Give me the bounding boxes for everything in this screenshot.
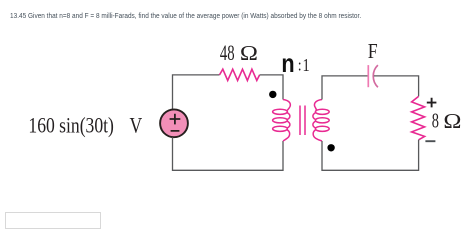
transformer core lines [300, 106, 305, 136]
problem statement text [10, 11, 361, 20]
svg-text:160 sin(30t): 160 sin(30t) [28, 114, 113, 138]
wire: from resistor to transformer primary top corner [260, 75, 283, 100]
svg-text:V: V [130, 114, 143, 138]
resistor R1 48ohm zigzag [220, 69, 260, 80]
svg-text:Ω: Ω [443, 109, 461, 132]
capacitor C1 curved plate [373, 65, 378, 87]
svg-text:n: n [281, 50, 294, 78]
source polarity marks plus minus [170, 114, 181, 131]
wire: secondary top to capacitor [322, 76, 368, 100]
wire: capacitor to right top corner down to resistor [374, 76, 419, 97]
svg-text:48: 48 [220, 41, 235, 66]
wire: resistor bottom to bottom rail to secondary bottom [322, 140, 419, 171]
svg-text:F: F [368, 41, 378, 64]
svg-text:1: 1 [303, 57, 310, 76]
capacitor C1 left plate [367, 65, 369, 87]
svg-text::: : [298, 56, 302, 75]
svg-text:Ω: Ω [240, 41, 258, 64]
label minus for 8ohm [425, 140, 435, 142]
resistor R2 8ohm vertical zigzag [412, 96, 425, 139]
svg-text:8: 8 [432, 109, 439, 132]
wire: top-left horizontal from source top corner to 48ohm resistor [173, 75, 220, 109]
polarity dot secondary [327, 144, 334, 151]
wire: source bottom to bottom rail, bottom rail to transformer primary bottom [173, 137, 284, 170]
transformer T1 secondary coil [313, 100, 329, 142]
transformer T1 primary coil [273, 100, 291, 142]
voltage source V1 160sin(30t) [160, 109, 188, 137]
label + for 8ohm [427, 98, 437, 108]
answer input box [5, 212, 101, 229]
polarity dot primary [269, 91, 276, 98]
